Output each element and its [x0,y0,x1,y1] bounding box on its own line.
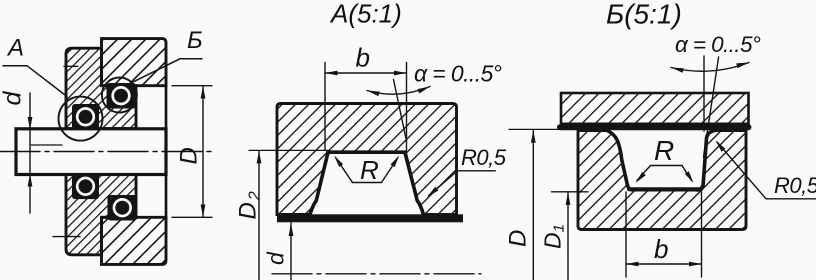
centerline detail A [272,273,481,275]
dimension D line [202,86,204,218]
svg-text:d: d [0,91,27,106]
svg-text:b: b [356,43,370,73]
svg-text:R: R [654,135,674,166]
D2 dimension line [258,150,260,280]
svg-text:d: d [263,251,289,265]
D extension top [172,85,212,87]
dimension d line [29,93,31,213]
svg-text:α = 0...5°: α = 0...5° [675,32,761,57]
svg-text:R0,5: R0,5 [774,173,816,198]
shaft surface thick band [277,214,463,222]
svg-text:Б(5:1): Б(5:1) [606,0,682,30]
svg-text:Б: Б [187,27,203,54]
o-ring seal A lower groove [73,175,98,199]
groove right wall bold B [697,131,715,191]
svg-text:D: D [176,147,203,164]
hub block with groove [578,131,746,230]
D2 extension line [249,149,329,151]
R0,5 leader [717,142,816,199]
b extension left [324,63,326,151]
alpha arc arrow [367,87,430,95]
bolt hole centerline lower [53,236,80,238]
groove right wall bold [405,153,424,215]
o-ring B lower [114,199,131,216]
detail circle A [59,97,103,141]
alpha reference vertical [703,56,705,131]
housing block [561,93,749,124]
alpha wall extension line [394,80,407,142]
svg-text:R0,5: R0,5 [461,145,507,170]
housing flange lower [102,217,167,264]
R0,5 leader [429,171,496,196]
svg-text:α = 0...5°: α = 0...5° [414,61,502,87]
b extension right [406,63,408,151]
leader A [3,66,67,97]
groove floor thick line [629,187,701,191]
o-ring A [77,109,94,126]
groove left wall bold B [607,131,634,191]
D extension bottom [172,216,212,218]
b dimension line [626,263,702,265]
d dimension line [290,223,292,280]
svg-text:A: A [6,35,24,62]
detail circle B [102,78,137,113]
b dimension line [325,72,407,74]
housing bore edge line [165,86,168,218]
svg-text:b: b [654,234,668,264]
b extension left [625,192,627,277]
groove bottom face thick line [328,150,406,154]
o-ring seal B lower groove [109,196,137,220]
alpha arc arrow [671,63,749,72]
groove left wall bold [310,153,328,215]
D dimension line [532,130,534,280]
o-ring seal B groove upper [108,84,136,108]
hub upper half [66,48,136,128]
svg-text:R: R [360,155,379,185]
o-ring A lower [77,178,94,195]
alpha wall extension [704,57,719,157]
o-ring B [113,87,130,104]
leader B [132,59,202,83]
mating surface thick line [560,124,749,130]
D1 dimension line [567,192,569,280]
D extension line [509,128,561,130]
hub lower half [66,175,136,255]
R leader arrows [336,158,398,182]
D1 extension line [552,191,589,193]
hub section block with dovetail groove [277,104,457,215]
svg-text:A(5:1): A(5:1) [329,0,402,29]
shaft mark line [31,144,62,146]
o-ring seal A groove [73,105,98,129]
R label bar and arrows [637,166,692,181]
svg-text:D: D [505,230,532,247]
b extension right [701,192,703,277]
bolt hole centerline upper [64,65,78,67]
centerline shaft axis [0,151,213,153]
shaft [16,129,166,175]
housing flange upper [102,39,167,86]
